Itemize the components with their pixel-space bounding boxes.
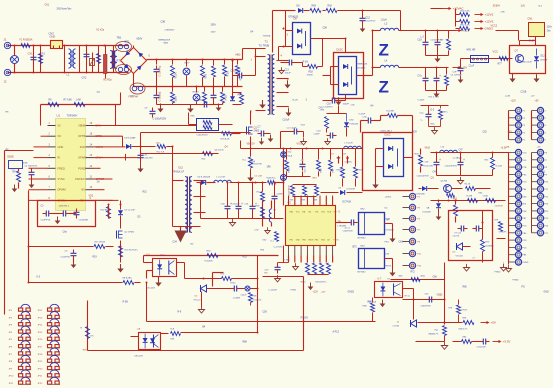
svg-text:MV76K2: MV76K2 — [358, 238, 367, 240]
svg-text:-1V: -1V — [301, 160, 305, 162]
svg-text:Z: Z — [379, 78, 389, 97]
svg-text:PBO: PBO — [302, 240, 307, 242]
svg-text:PB1: PB1 — [290, 240, 294, 242]
svg-text:CX1: CX1 — [28, 52, 34, 56]
svg-text:C43: C43 — [319, 108, 324, 110]
svg-text:PGND: PGND — [523, 262, 529, 264]
svg-text:U3C-B17: U3C-B17 — [147, 288, 156, 290]
svg-text:DT8410S: DT8410S — [289, 17, 299, 19]
svg-text:JP17: JP17 — [38, 347, 44, 349]
svg-text:R-K4.02W: R-K4.02W — [424, 166, 433, 168]
svg-text:JP20: JP20 — [38, 368, 44, 370]
svg-text:TOP249Y: TOP249Y — [67, 115, 78, 118]
svg-text:C1000uF/16V: C1000uF/16V — [445, 166, 458, 168]
svg-text:150V: 150V — [211, 32, 217, 34]
svg-text:OPWM: OPWM — [78, 156, 86, 160]
svg-text:CH2: CH2 — [321, 212, 325, 214]
svg-text:GND2: GND2 — [348, 292, 355, 294]
svg-text:VTL4-C: VTL4-C — [194, 300, 202, 302]
svg-text:3GB: 3GB — [83, 350, 88, 352]
svg-text:FCD: FCD — [80, 145, 85, 149]
svg-text:C98: C98 — [323, 28, 328, 30]
svg-text:MBR2045: MBR2045 — [358, 64, 369, 66]
svg-text:R2 R2a: R2 R2a — [104, 79, 113, 82]
svg-text:VSB2: VSB2 — [437, 295, 444, 297]
svg-text:R-098: R-098 — [467, 196, 474, 198]
svg-text:MOV: MOV — [185, 63, 191, 65]
svg-text:R18: R18 — [309, 72, 314, 74]
svg-text:RC5 R4.7K/1C: RC5 R4.7K/1C — [125, 250, 139, 252]
svg-text:B74PP: B74PP — [541, 60, 548, 62]
svg-text:C1uF: C1uF — [469, 66, 475, 68]
svg-text:1N: 1N — [97, 182, 100, 184]
svg-text:RI34: RI34 — [321, 240, 325, 242]
svg-text:JP13: JP13 — [38, 317, 44, 319]
svg-text:PGND: PGND — [495, 272, 501, 274]
svg-text:PG: PG — [522, 287, 526, 289]
svg-text:D2 C2.1UF: D2 C2.1UF — [125, 210, 136, 212]
svg-text:D12: D12 — [541, 56, 546, 58]
svg-text:+: + — [439, 74, 441, 78]
svg-text:TR-BLK LP: TR-BLK LP — [173, 172, 185, 174]
svg-text:+: + — [463, 158, 465, 162]
svg-text:D1N914B: D1N914B — [416, 194, 426, 196]
svg-text:+: + — [439, 158, 441, 162]
svg-text:R8 B.0B4: R8 B.0B4 — [123, 278, 133, 280]
svg-text:3.74K/Pc: 3.74K/Pc — [499, 232, 507, 234]
svg-text:C7L3B: C7L3B — [393, 326, 400, 328]
svg-text:+5V: +5V — [491, 321, 496, 325]
svg-text:R69: R69 — [312, 5, 317, 8]
svg-text:1000P: 1000P — [343, 104, 350, 106]
svg-text:PAO8: PAO8 — [308, 239, 313, 242]
svg-text:R19: R19 — [93, 257, 98, 259]
svg-text:RC3A.0%: RC3A.0% — [253, 299, 262, 302]
svg-text:R1: R1 — [42, 52, 46, 56]
svg-text:1.5uH: 1.5uH — [381, 20, 387, 22]
svg-text:BT2: BT2 — [353, 247, 358, 249]
svg-text:D10C: D10C — [385, 134, 391, 137]
svg-text:R.0B: R.0B — [227, 71, 230, 77]
svg-text:PA0: PA0 — [290, 211, 293, 214]
svg-text:VTL431: VTL431 — [456, 256, 464, 258]
svg-text:TB1: TB1 — [117, 36, 122, 40]
svg-text:C104/1KV: C104/1KV — [144, 158, 154, 160]
svg-text:JP22: JP22 — [38, 383, 44, 385]
svg-text:JP15: JP15 — [38, 332, 44, 334]
svg-text:C10uF/1V: C10uF/1V — [366, 21, 376, 23]
svg-text:B.8-2K7W: B.8-2K7W — [253, 164, 262, 166]
svg-text:P17: P17 — [542, 212, 547, 214]
svg-text:+CH: +CH — [342, 154, 347, 156]
svg-text:3.7K/Pc: 3.7K/Pc — [461, 310, 468, 312]
svg-text:CN3: CN3 — [49, 32, 55, 36]
svg-text:R-B: R-B — [171, 329, 175, 331]
svg-text:C13B8: C13B8 — [277, 194, 284, 196]
svg-text:C-06uF: C-06uF — [418, 100, 426, 102]
svg-text:CH1: CH1 — [315, 212, 319, 214]
svg-text:VBNB: VBNB — [78, 124, 85, 128]
svg-text:100uF: 100uF — [285, 73, 292, 75]
svg-text:P1N4148: P1N4148 — [350, 124, 359, 126]
svg-text:MB4: MB4 — [164, 43, 169, 45]
svg-text:JP14: JP14 — [38, 325, 44, 327]
svg-text:R14B R1+: R14B R1+ — [267, 178, 277, 180]
svg-text:R29: R29 — [413, 132, 418, 134]
svg-text:R7 6.8K: R7 6.8K — [64, 100, 73, 102]
svg-text:150V: 150V — [211, 25, 217, 27]
svg-text:VCC: VCC — [493, 50, 499, 54]
svg-text:L7NC: L7NC — [285, 260, 291, 262]
svg-text:R17 1P16K: R17 1P16K — [95, 242, 106, 244]
svg-text:J5 B04: J5 B04 — [493, 6, 501, 8]
svg-text:R53: R53 — [243, 257, 248, 259]
svg-text:C-100uF/25V: C-100uF/25V — [153, 119, 167, 121]
svg-text:C100uF/25V: C100uF/25V — [197, 135, 209, 137]
svg-text:C16: C16 — [327, 104, 332, 106]
svg-text:D6 B-106AF: D6 B-106AF — [125, 137, 137, 140]
svg-text:R-4.3Ω: R-4.3Ω — [496, 166, 503, 168]
svg-text:C-100uF: C-100uF — [269, 290, 278, 292]
svg-text:JP19: JP19 — [38, 361, 44, 363]
svg-text:D4 B.1N4148: D4 B.1N4148 — [198, 177, 211, 179]
svg-text:JP18: JP18 — [38, 354, 44, 356]
svg-text:R4K: R4K — [191, 116, 196, 118]
svg-text:PG08: PG08 — [291, 290, 297, 292]
svg-text:JP16: JP16 — [38, 339, 44, 341]
svg-text:U8C-B17: U8C-B17 — [135, 356, 144, 358]
svg-text:+12V3: +12V3 — [485, 20, 494, 24]
svg-text:DO34.3B: DO34.3B — [347, 189, 356, 191]
svg-text:BR1: BR1 — [125, 40, 131, 44]
svg-text:NC: NC — [58, 134, 62, 138]
svg-text:2N3 Norm?pin: 2N3 Norm?pin — [57, 8, 73, 11]
svg-text:PS2N: PS2N — [334, 240, 340, 242]
svg-text:R-1N: R-1N — [293, 100, 299, 102]
svg-text:R15: R15 — [143, 192, 148, 194]
svg-text:R13 A-1B: R13 A-1B — [221, 138, 231, 141]
svg-text:GND: GND — [296, 240, 301, 242]
svg-text:GND: GND — [58, 145, 64, 149]
svg-text:C13: C13 — [285, 70, 290, 72]
svg-text:RA30B.7%: RA30B.7% — [429, 333, 439, 336]
svg-text:C1UF/P16: C1UF/P16 — [41, 220, 52, 222]
svg-text:GND: GND — [544, 292, 549, 294]
svg-text:C600P/16V: C600P/16V — [421, 306, 432, 308]
svg-text:R87: R87 — [368, 302, 373, 304]
svg-text:C49: C49 — [433, 172, 438, 174]
svg-text:C3B/450V: C3B/450V — [165, 30, 176, 32]
svg-text:R10 B1UB: R10 B1UB — [101, 210, 111, 212]
svg-text:NR1 NR: NR1 NR — [467, 49, 476, 52]
svg-text:C100P: C100P — [314, 134, 321, 136]
svg-text:DB31 2B14: DB31 2B14 — [381, 131, 393, 133]
svg-text:DG3: DG3 — [385, 254, 390, 256]
svg-text:VD2: VD2 — [89, 195, 94, 198]
svg-text:K2 K2a: K2 K2a — [97, 30, 105, 32]
svg-text:A-F1Z: A-F1Z — [333, 331, 340, 334]
svg-text:JP12: JP12 — [38, 310, 44, 312]
svg-text:DC7418: DC7418 — [343, 202, 352, 204]
svg-text:CN1: CN1 — [45, 5, 50, 7]
svg-text:NS: NS — [81, 188, 85, 192]
svg-text:VB1/1V: VB1/1V — [247, 143, 256, 146]
svg-text:C66: C66 — [433, 277, 438, 279]
svg-text:OPTB: OPTB — [78, 134, 85, 138]
svg-text:+5B: +5B — [137, 329, 141, 331]
svg-text:DC04.6B: DC04.6B — [423, 212, 432, 214]
svg-text:+C2B: +C2B — [505, 96, 511, 98]
svg-text:R-1N: R-1N — [303, 62, 309, 64]
svg-text:C6a: C6a — [63, 232, 68, 234]
svg-text:R1K: R1K — [328, 5, 333, 8]
svg-text:C18: C18 — [418, 40, 423, 42]
svg-text:R14 4.7K/2: R14 4.7K/2 — [429, 97, 440, 99]
svg-text:+5V: +5V — [535, 101, 540, 103]
svg-text:+5V: +5V — [531, 96, 535, 98]
svg-text:MV76K2: MV76K2 — [358, 272, 367, 274]
svg-text:Q4 DL19C: Q4 DL19C — [215, 150, 225, 152]
svg-text:R30B: R30B — [337, 170, 343, 172]
svg-text:C4.7uF/50V: C4.7uF/50V — [451, 75, 463, 77]
svg-text:C1 C4B: C1 C4B — [255, 176, 263, 178]
svg-text:R3K: R3K — [314, 200, 319, 202]
svg-text:1R0: 1R0 — [267, 167, 272, 169]
svg-text:R3K: R3K — [302, 200, 307, 202]
svg-text:R-3B: R-3B — [123, 302, 129, 304]
svg-text:R16 4.7K: R16 4.7K — [461, 11, 471, 13]
svg-text:C102P/1K: C102P/1K — [61, 257, 71, 259]
svg-text:PB4: PB4 — [315, 240, 319, 242]
svg-text:+5V: +5V — [508, 132, 513, 134]
svg-text:C10uF: C10uF — [283, 120, 290, 122]
svg-text:J2: J2 — [4, 80, 7, 84]
svg-text:L7 10uH: L7 10uH — [345, 143, 353, 145]
svg-text:AC: AC — [10, 57, 14, 61]
svg-text:C-100uF: C-100uF — [159, 92, 162, 102]
svg-text:C47: C47 — [459, 150, 464, 152]
svg-text:-1V: -1V — [331, 154, 335, 156]
svg-text:C12: C12 — [366, 17, 371, 20]
svg-text:K7 C12: K7 C12 — [455, 233, 463, 235]
svg-text:F1 FUSE/5A: F1 FUSE/5A — [20, 39, 33, 42]
svg-text:D10C: D10C — [337, 49, 344, 52]
svg-text:FREQ: FREQ — [58, 166, 65, 170]
svg-text:C31B: C31B — [521, 92, 527, 94]
svg-text:C3B: C3B — [161, 22, 166, 24]
svg-text:PGND: PGND — [513, 280, 520, 282]
svg-text:PS-ON: PS-ON — [301, 318, 309, 320]
svg-text:103B: 103B — [23, 163, 28, 165]
svg-text:2N60: 2N60 — [254, 130, 260, 133]
svg-text:C-R2200F: C-R2200F — [477, 347, 487, 349]
svg-text:Z: Z — [379, 41, 389, 60]
svg-text:R-S160K: R-S160K — [205, 261, 214, 263]
svg-text:R4x10K/Pcs: R4x10K/Pcs — [316, 282, 327, 284]
svg-text:A6C13.4F: A6C13.4F — [523, 61, 533, 64]
svg-text:4.7K: 4.7K — [90, 336, 95, 338]
svg-text:C-1047V: C-1047V — [159, 67, 162, 77]
svg-text:R3B: R3B — [363, 306, 368, 308]
svg-text:C-4.7K/6C: C-4.7K/6C — [274, 247, 284, 249]
svg-text:CLI C104P: CLI C104P — [287, 128, 297, 130]
svg-text:DB2B: DB2B — [8, 157, 14, 159]
svg-text:K-100P: K-100P — [359, 114, 366, 116]
svg-text:U1: U1 — [57, 114, 61, 118]
svg-text:R-680/Pc: R-680/Pc — [486, 246, 494, 248]
svg-text:TX TR2B: TX TR2B — [259, 44, 270, 48]
svg-text:JP21: JP21 — [38, 376, 44, 378]
svg-text:HD: HD — [265, 273, 269, 275]
svg-text:T1: T1 — [265, 40, 269, 44]
svg-text:5V: 5V — [58, 124, 61, 128]
svg-text:C-1004uF: C-1004uF — [197, 100, 207, 102]
svg-text:1.4M: 1.4M — [76, 100, 81, 102]
svg-text:VA15: VA15 — [425, 147, 431, 150]
svg-text:C2F: C2F — [453, 72, 458, 74]
svg-text:VCC2: VCC2 — [491, 25, 498, 28]
svg-text:+12V2: +12V2 — [485, 13, 494, 17]
svg-text:L1 4.7uH: L1 4.7uH — [217, 177, 226, 179]
svg-text:1206/1P1.1: 1206/1P1.1 — [59, 206, 70, 208]
svg-text:+12V: +12V — [313, 292, 319, 294]
svg-text:HB3: HB3 — [236, 54, 241, 57]
svg-text:+3.3V: +3.3V — [503, 340, 511, 344]
svg-text:C104P/50V: C104P/50V — [343, 231, 354, 233]
svg-text:ON/OFF: ON/OFF — [75, 177, 85, 181]
svg-text:CX2: CX2 — [82, 77, 87, 80]
svg-text:4700K: 4700K — [307, 75, 314, 77]
svg-text:x4B: x4B — [506, 147, 510, 149]
svg-text:R74C: R74C — [231, 283, 237, 285]
svg-text:R10K: R10K — [175, 72, 178, 78]
svg-text:PGND: PGND — [78, 166, 86, 170]
svg-text:7N4B: 7N4B — [385, 219, 391, 221]
svg-text:J1: J1 — [4, 38, 7, 42]
svg-text:NBHA/2009: NBHA/2009 — [159, 39, 171, 42]
svg-text:U-T: U-T — [378, 279, 382, 281]
svg-text:C7a: C7a — [418, 76, 423, 78]
svg-text:+12V: +12V — [321, 292, 327, 294]
svg-text:300K: 300K — [175, 96, 178, 102]
svg-text:VCC: VCC — [296, 212, 301, 214]
svg-text:C1000uF/16V: C1000uF/16V — [431, 40, 444, 42]
svg-text:B3K: B3K — [171, 339, 175, 341]
svg-text:C34: C34 — [173, 242, 178, 244]
svg-text:+3V: +3V — [537, 147, 541, 149]
svg-text:DPWM: DPWM — [58, 188, 66, 192]
svg-text:R33/4.7%: R33/4.7% — [459, 329, 468, 331]
svg-text:P7B: P7B — [523, 167, 527, 169]
svg-text:4.7K: 4.7K — [11, 169, 16, 171]
svg-text:-5V: -5V — [463, 66, 468, 70]
svg-text:C1000uF/16V: C1000uF/16V — [417, 176, 430, 178]
svg-text:SYNC: SYNC — [58, 177, 65, 181]
svg-text:1LN: 1LN — [521, 6, 526, 8]
svg-text:R77: R77 — [498, 64, 503, 66]
svg-text:Ri-1988: Ri-1988 — [387, 111, 395, 113]
svg-text:B10A45: B10A45 — [358, 67, 367, 70]
svg-text:+: + — [241, 202, 243, 206]
svg-text:PWOK: PWOK — [385, 266, 392, 268]
svg-text:C100P1V: C100P1V — [324, 107, 334, 109]
svg-text:C63: C63 — [399, 242, 404, 244]
svg-text:2.4V/9uE: 2.4V/9uE — [495, 206, 504, 208]
svg-text:C52: C52 — [483, 132, 488, 134]
svg-text:CN1: CN1 — [528, 18, 534, 21]
svg-text:C59: C59 — [263, 312, 268, 314]
svg-text:Q2 17N80: Q2 17N80 — [125, 232, 135, 234]
svg-text:JP10: JP10 — [9, 376, 15, 378]
svg-text:C1.19C: C1.19C — [345, 162, 353, 164]
svg-text:C1000uF: C1000uF — [232, 204, 241, 206]
svg-text:+C2B/W: +C2B/W — [233, 298, 241, 300]
svg-text:C4.07K: C4.07K — [453, 236, 460, 238]
svg-text:+5VD2: +5VD2 — [385, 197, 393, 199]
svg-text:VD4: VD4 — [251, 162, 256, 164]
svg-text:MOV2: MOV2 — [193, 92, 200, 94]
svg-text:R7B: R7B — [205, 73, 208, 78]
svg-text:R40K: R40K — [289, 166, 291, 172]
svg-text:600V: 600V — [137, 38, 143, 41]
svg-text:R-C: R-C — [243, 160, 247, 162]
svg-text:Q1786: Q1786 — [441, 181, 448, 183]
svg-text:vK C1: vK C1 — [345, 228, 352, 230]
svg-text:C13B: C13B — [483, 196, 489, 198]
svg-text:R17 4.7K: R17 4.7K — [461, 25, 471, 27]
svg-text:D12: D12 — [179, 167, 184, 170]
svg-text:C20uF: C20uF — [241, 295, 248, 297]
svg-text:RI: RI — [58, 156, 61, 160]
svg-text:C100K/6E: C100K/6E — [79, 220, 89, 222]
svg-text:12Vo: 12Vo — [547, 27, 553, 29]
svg-text:R1P: R1P — [333, 168, 335, 173]
svg-text:R80: R80 — [463, 287, 468, 289]
svg-text:R1.2K: R1.2K — [465, 184, 471, 186]
svg-text:C7LN344: C7LN344 — [385, 230, 395, 232]
svg-text:C-: C- — [421, 120, 424, 122]
svg-text:C4 100P/1KV: C4 100P/1KV — [25, 166, 38, 168]
svg-text:B2-A: B2-A — [288, 155, 293, 158]
svg-text:757B2B: 757B2B — [263, 36, 271, 38]
svg-text:R2B: R2B — [253, 296, 258, 298]
svg-text:R88: R88 — [243, 342, 248, 344]
svg-text:R72: R72 — [411, 272, 416, 274]
svg-text:+12V: +12V — [511, 101, 517, 103]
svg-text:R7.5c: R7.5c — [405, 296, 410, 298]
